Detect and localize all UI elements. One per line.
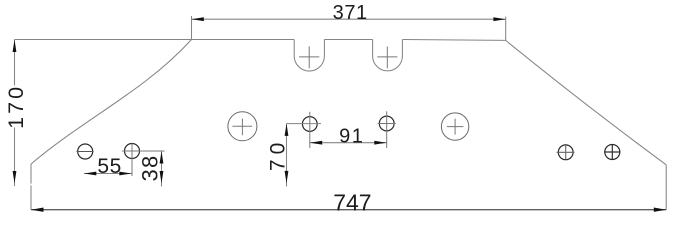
part outline: top edge left segment <box>15 39 295 41</box>
hole C (middle small, left of 91 pair) <box>302 117 317 132</box>
dimension 170: value label (rotated) <box>4 84 28 129</box>
dimension 170: bottom arrowhead <box>13 171 17 183</box>
dimension 91: right arrowhead <box>374 141 386 145</box>
slot 1 crosshair <box>299 47 319 69</box>
hole G (lower-right pair, left) <box>558 145 573 160</box>
dimension 747: value label <box>333 189 371 215</box>
dimension 91: value label <box>339 126 364 148</box>
dimension 371: left arrowhead <box>192 17 204 21</box>
dimension 170: top arrowhead <box>13 40 17 52</box>
hole H (lower-right pair, right) <box>605 145 620 160</box>
hole C vertical centreline / extension for 91 <box>309 112 311 148</box>
dimension 38: value label (rotated) <box>138 155 163 182</box>
part outline: top edge middle segment <box>324 39 372 41</box>
svg-text:371: 371 <box>333 2 368 24</box>
part outline: right vertical edge <box>665 165 667 210</box>
dimension 747: right arrowhead <box>654 208 666 212</box>
hole F crosshair + extension line to 38 dimension <box>122 144 165 177</box>
dimension 371: extension line right <box>505 17 507 41</box>
dimension 38: bottom arrowhead <box>160 171 164 183</box>
hole B crosshair <box>447 119 464 135</box>
hole D crosshair / extension for 91 <box>378 111 396 148</box>
dimension 91: dimension line <box>310 142 387 144</box>
part outline: top edge right segment <box>402 39 505 42</box>
hole B (large, right) <box>441 113 468 140</box>
dimension 91: left arrowhead <box>310 141 322 145</box>
part outline: right slope edge <box>506 40 667 164</box>
hole A crosshair <box>232 119 252 136</box>
hole H crosshair <box>604 145 621 160</box>
dimension 70: top arrowhead <box>285 124 289 136</box>
svg-text:38: 38 <box>138 155 163 182</box>
svg-text:70: 70 <box>267 138 290 171</box>
hole D (middle small, right of 91 pair) <box>379 116 394 131</box>
dimension 55: left arrowhead <box>84 172 96 176</box>
dimension 70: value label (rotated) <box>267 138 290 171</box>
hole F (lower-left pair, right) <box>125 144 140 159</box>
hole E (lower-left pair, left; horizontal slash only) <box>78 144 93 159</box>
dimension 55: value label <box>97 155 121 178</box>
hole G crosshair <box>557 145 575 160</box>
dimension 371: dimension line <box>192 18 506 20</box>
part outline: bottom edge (doubles as 747 dimension line) <box>31 209 666 211</box>
dimension 371: right arrowhead <box>493 17 505 21</box>
slot 2 (U-notch) <box>373 40 403 71</box>
svg-text:55: 55 <box>97 155 121 178</box>
dimension 38: top arrowhead <box>160 151 164 163</box>
slot 2 crosshair <box>377 47 397 69</box>
slot 1 (U-notch) <box>294 40 324 72</box>
dimension 55: dimension line <box>84 173 132 175</box>
dimension 70: bottom arrowhead <box>285 171 289 183</box>
hole E horizontal centreline <box>77 151 94 153</box>
dimension 371: extension line left <box>191 16 193 40</box>
dimension 70: dimension line <box>286 124 288 187</box>
part outline: left vertical edge <box>30 164 32 210</box>
hole A (large, left) <box>228 112 257 141</box>
svg-text:91: 91 <box>339 126 364 148</box>
svg-text:170: 170 <box>4 84 28 129</box>
dimension 170: dimension line (broken for label) <box>14 40 16 187</box>
part outline: left slope edge <box>31 40 192 165</box>
dimension 38: dimension line <box>161 151 163 187</box>
svg-text:747: 747 <box>333 189 371 215</box>
dimension 747: left arrowhead <box>31 208 43 212</box>
dimension 371: value label <box>333 2 368 24</box>
dimension 70: extension line to hole C <box>287 123 322 125</box>
dimension 55: right arrowhead <box>119 172 131 176</box>
